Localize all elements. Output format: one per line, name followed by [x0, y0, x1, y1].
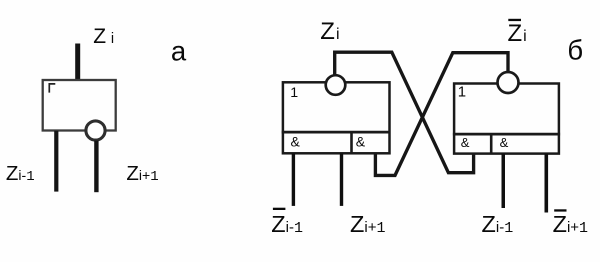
G function symbol inside element (a)	[49, 84, 55, 93]
wire: left gate output to right gate input (cross coupling)	[335, 52, 474, 173]
svg-text:Zi: Zi	[508, 20, 527, 47]
svg-text:Zi-1: Zi-1	[482, 211, 514, 237]
input wire Zi+1 (left gate)	[340, 153, 343, 206]
right gate DD2 AND-section divider	[490, 134, 493, 154]
svg-text:Zi+1: Zi+1	[553, 211, 588, 237]
right gate DD2 divider line	[453, 133, 560, 136]
input wire Z(bar)i+1 (right gate)	[545, 154, 549, 213]
input wire Z(bar)i-1 (left gate)	[292, 153, 295, 206]
input wire Zi+1 (element a)	[94, 141, 98, 193]
right gate DD2 body	[454, 84, 559, 154]
svg-text:а: а	[171, 35, 187, 66]
wire: output stub Zi (element a)	[75, 44, 80, 81]
logic element (a) body	[43, 80, 116, 131]
svg-text:Zi-1: Zi-1	[271, 211, 303, 237]
svg-text:б: б	[567, 35, 583, 66]
svg-text:1: 1	[458, 84, 466, 101]
svg-text:Zi+1: Zi+1	[350, 211, 385, 237]
left gate DD1 body	[283, 82, 390, 153]
inversion bubble on bottom input (element a)	[86, 121, 105, 140]
inversion bubble on right gate output	[498, 72, 519, 93]
overbar of Zbar-i	[508, 19, 521, 21]
input wire Zi-1 (element a)	[54, 131, 58, 192]
svg-text:1: 1	[290, 85, 298, 101]
wire: right gate output to left gate input (cross coupling)	[375, 53, 508, 176]
input wire Zi-1 (right gate)	[502, 154, 506, 208]
svg-text:&: &	[461, 135, 470, 150]
svg-text:Zi+1: Zi+1	[126, 162, 158, 185]
svg-text:&: &	[356, 134, 366, 150]
left gate DD1 divider line	[282, 131, 390, 134]
overbar of Zbar-i+1	[554, 209, 566, 211]
svg-text:Zi: Zi	[93, 25, 114, 48]
left gate DD1 AND-section divider	[350, 132, 353, 153]
svg-text:Zi-1: Zi-1	[6, 162, 35, 185]
overbar of Zbar-i-1	[273, 208, 286, 210]
svg-text:Zi: Zi	[320, 18, 339, 45]
inversion bubble on left gate output	[326, 75, 346, 95]
svg-text:&: &	[291, 134, 301, 150]
svg-text:&: &	[500, 135, 509, 150]
